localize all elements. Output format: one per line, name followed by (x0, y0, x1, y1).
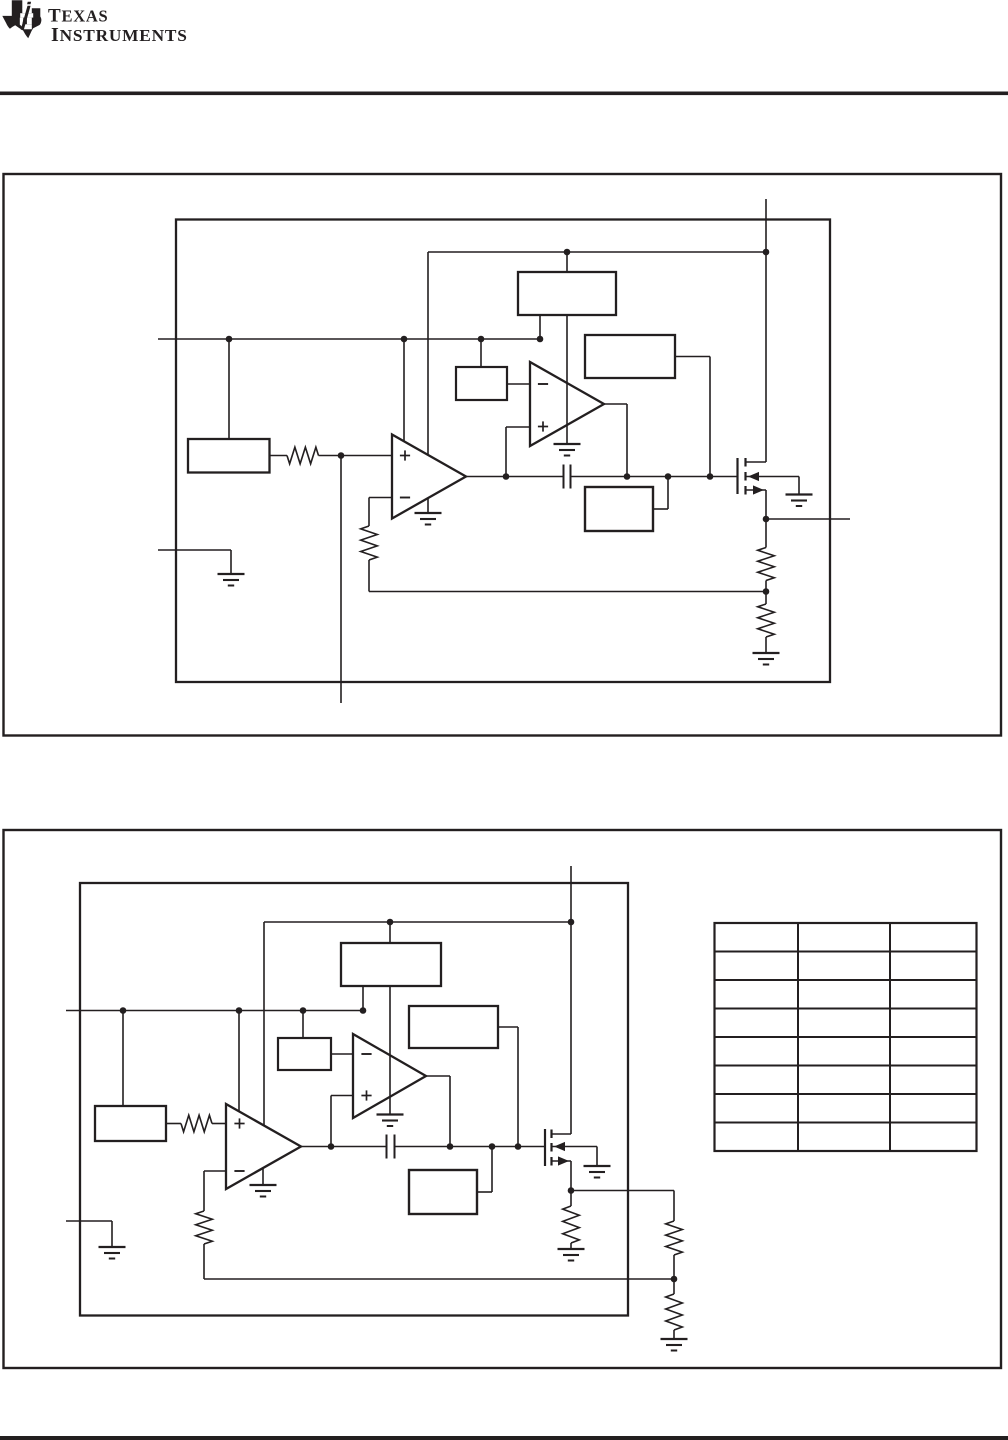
svg-text:INSTRUMENTS: INSTRUMENTS (51, 24, 188, 46)
